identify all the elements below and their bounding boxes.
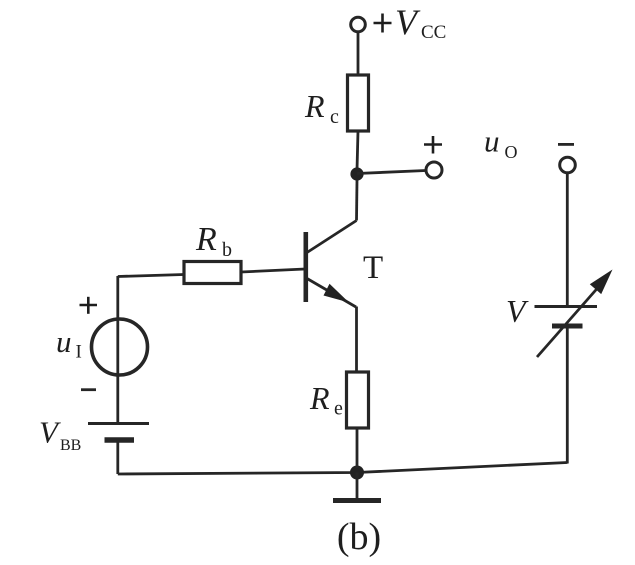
svg-text:V: V: [506, 293, 529, 329]
svg-text:R: R: [309, 380, 330, 416]
svg-text:R: R: [304, 88, 325, 124]
terminal uO plus: [426, 162, 442, 178]
svg-text:u: u: [56, 324, 72, 359]
wire Rc to node: [357, 131, 358, 170]
resistor Rc: [348, 75, 369, 131]
ground: [356, 473, 359, 500]
terminal +VCC: [351, 17, 366, 32]
source V short plate: [552, 324, 583, 329]
wire vcc to Rc: [357, 32, 360, 76]
terminal uO minus: [560, 157, 576, 173]
node collector junction: [350, 167, 363, 180]
svg-text:O: O: [505, 142, 518, 162]
label +VCC: [374, 14, 392, 33]
svg-text:b: b: [222, 239, 232, 261]
svg-text:R: R: [195, 221, 217, 258]
svg-text:V: V: [395, 2, 421, 42]
source uI: [92, 319, 148, 375]
svg-text:(b): (b): [337, 516, 381, 558]
wire left branch vertical: [116, 276, 119, 423]
battery VBB long plate: [88, 422, 149, 425]
wire bottom rail: [118, 463, 568, 475]
wire battery to rail: [116, 440, 119, 474]
transistor T: [306, 221, 357, 308]
wire source V to bottom rail: [566, 327, 569, 464]
label plus (output): [424, 136, 442, 154]
wire emitter: [355, 307, 358, 373]
svg-text:CC: CC: [421, 22, 446, 43]
battery VBB short plate: [105, 437, 135, 443]
svg-text:V: V: [39, 415, 61, 450]
resistor Rb: [184, 262, 241, 284]
svg-text:c: c: [330, 106, 339, 128]
resistor Re: [347, 372, 369, 428]
node ground junction: [350, 466, 364, 480]
svg-text:I: I: [76, 342, 82, 363]
label plus (uI): [80, 297, 98, 314]
wire node to output terminal: [357, 171, 426, 174]
wire terminal to source V: [566, 173, 569, 306]
svg-text:T: T: [363, 250, 383, 286]
svg-text:u: u: [484, 124, 500, 159]
wire collector: [355, 180, 358, 221]
label minus (output right): [558, 143, 574, 146]
wire Re to rail: [356, 428, 359, 468]
svg-text:e: e: [334, 398, 343, 420]
source V long plate: [535, 305, 598, 308]
wire Rb to base: [241, 269, 305, 272]
source V arrow: [537, 288, 598, 358]
wire base left segment: [118, 275, 184, 277]
svg-text:BB: BB: [60, 437, 81, 454]
label minus (uI): [81, 388, 96, 391]
